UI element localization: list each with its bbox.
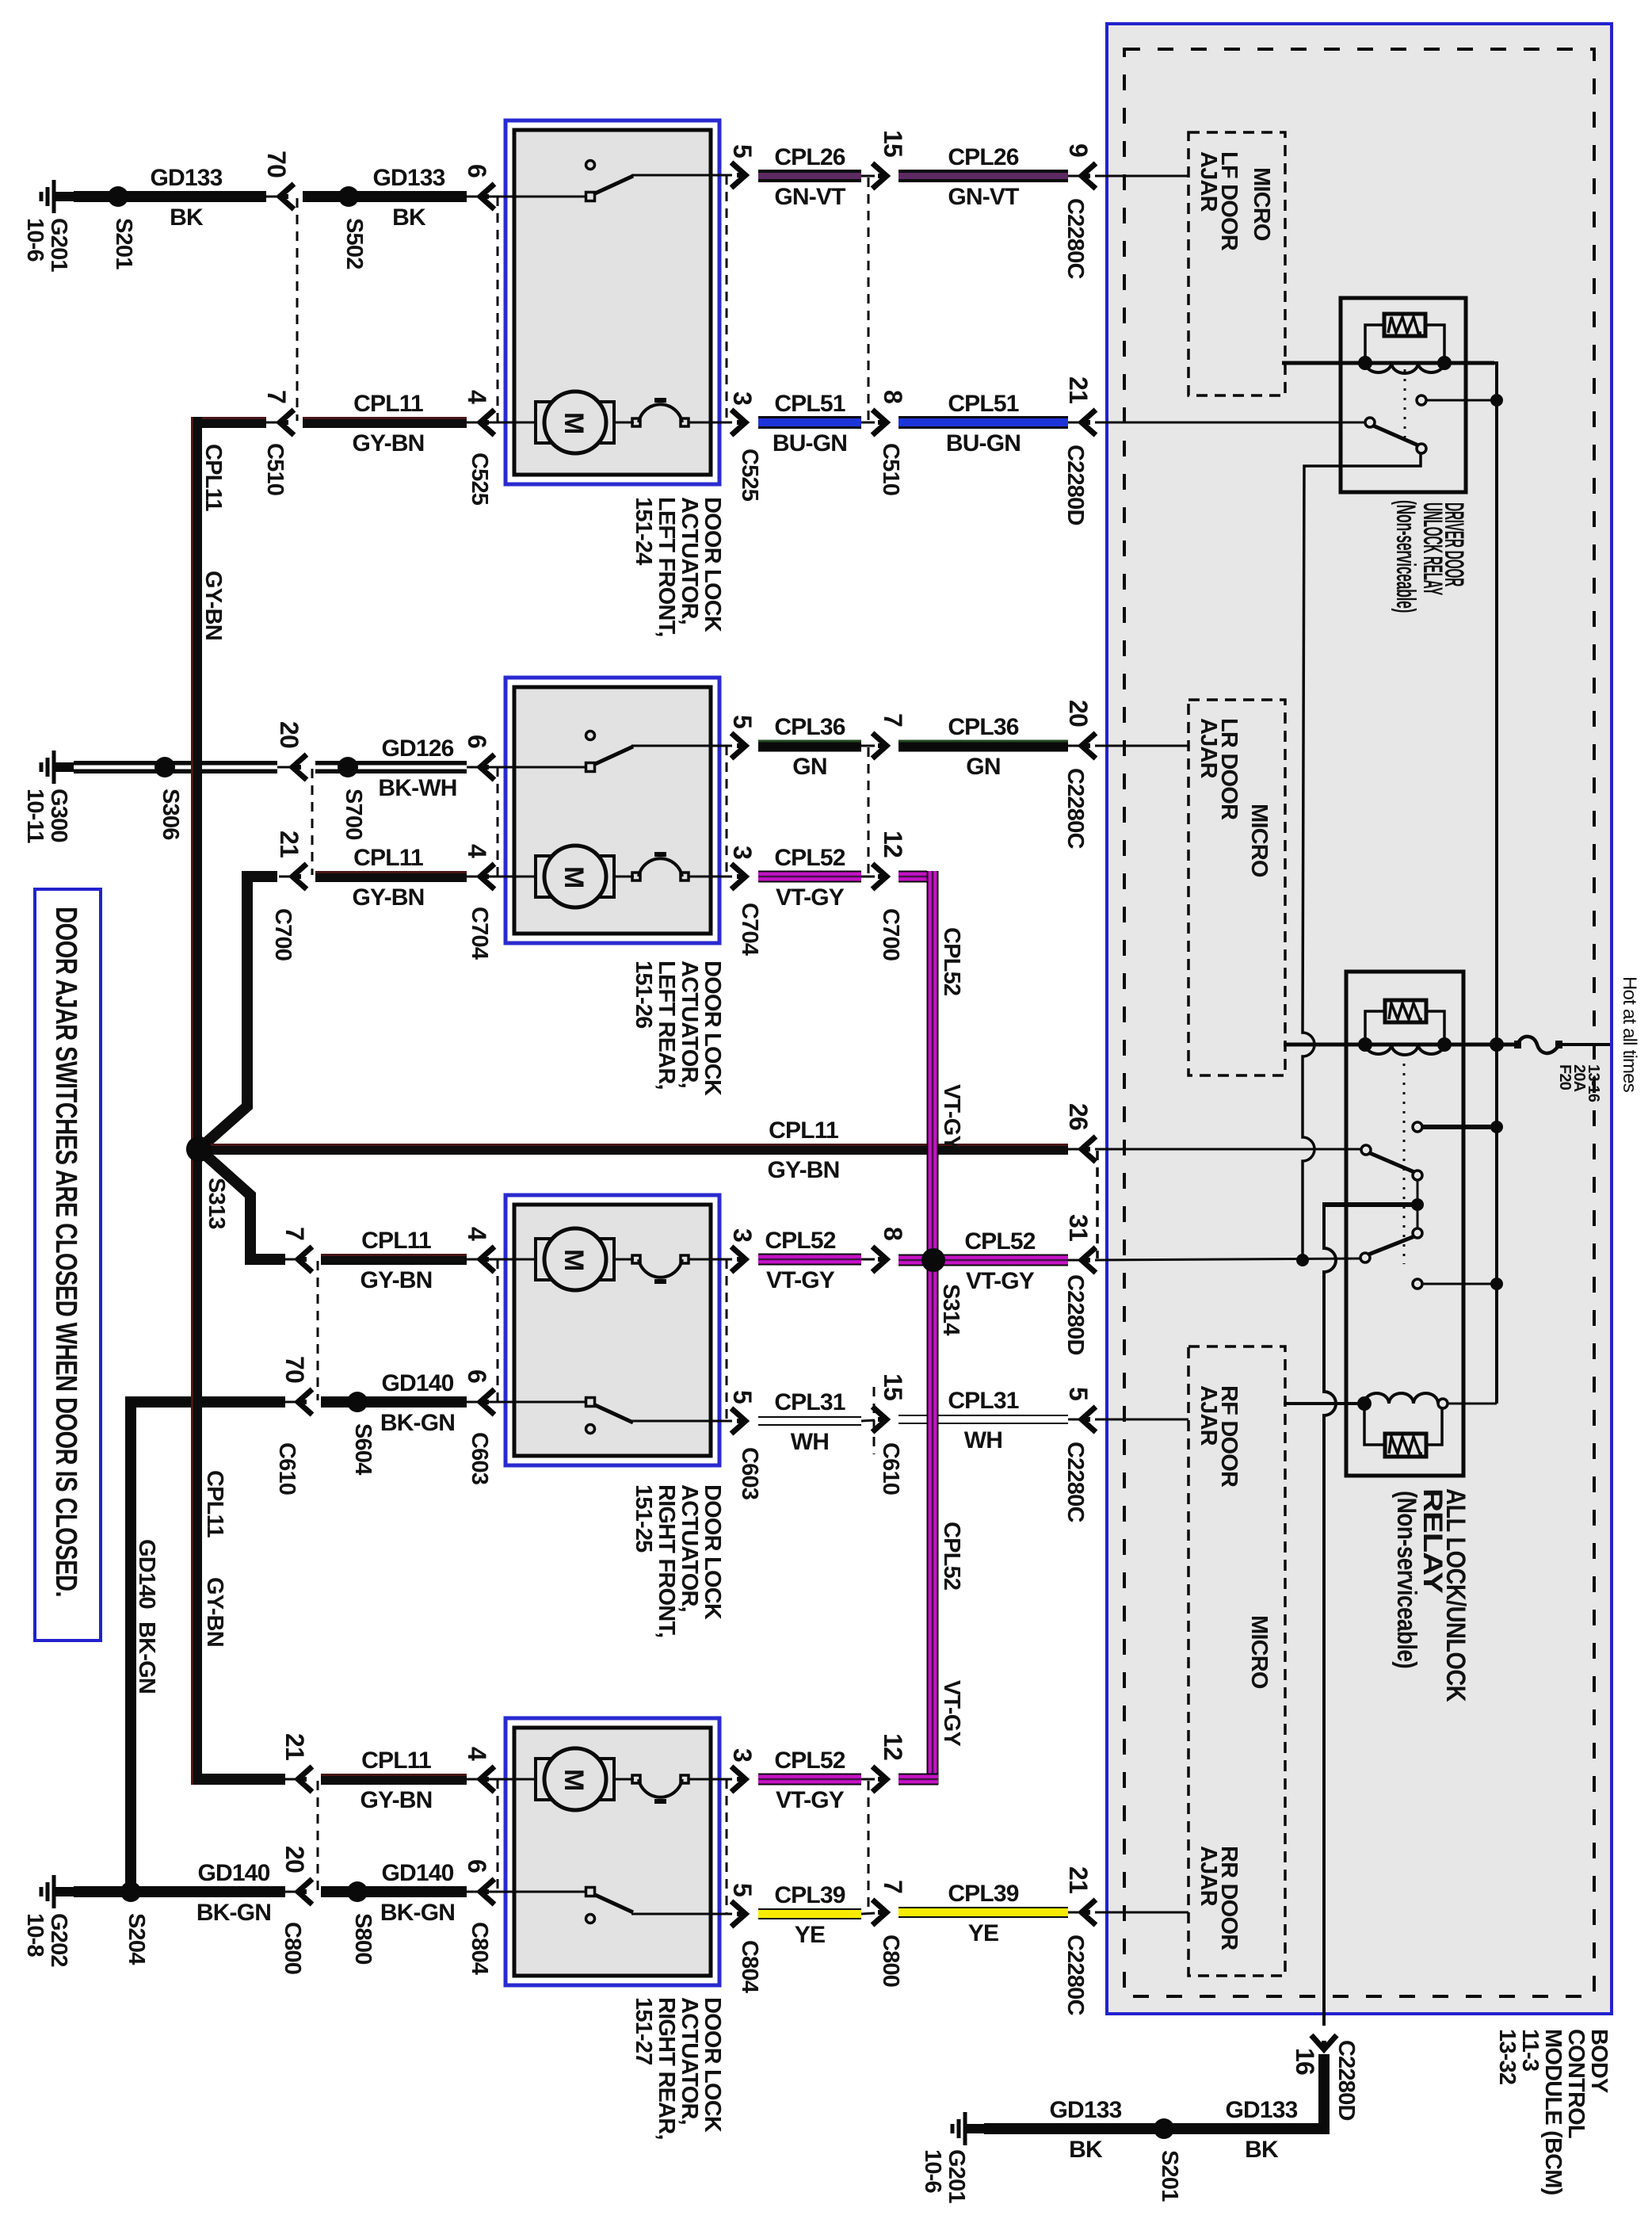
- wire pin5 to RF DOOR AJAR micro: [1095, 1419, 1188, 1421]
- relay U2 lower resistor leads: [1364, 1408, 1385, 1445]
- svg-text:5: 5: [728, 1883, 757, 1896]
- wire CPL52 corner to RR pin12: [898, 1774, 938, 1786]
- svg-text:5: 5: [728, 715, 757, 728]
- svg-text:AJAR: AJAR: [1196, 1846, 1221, 1907]
- ground G201 top: [52, 180, 56, 213]
- svg-text:WH: WH: [791, 1429, 829, 1455]
- relay U2 bottom contact wire to hot rail: [1422, 1283, 1496, 1285]
- wire CPL36 GN segment 1: [758, 740, 861, 752]
- svg-text:DOOR LOCK: DOOR LOCK: [700, 497, 725, 632]
- svg-text:AJAR: AJAR: [1196, 1385, 1221, 1446]
- connector C700 pin21 arrow: [279, 876, 293, 878]
- svg-text:GD133: GD133: [150, 165, 222, 191]
- actuator C525 lock linkage: [614, 422, 634, 424]
- svg-text:S313: S313: [204, 1178, 229, 1229]
- relay U2 lower coil junction dot: [1357, 1396, 1372, 1411]
- svg-text:C804: C804: [737, 1940, 762, 1993]
- svg-text:C510: C510: [878, 443, 903, 495]
- connector C610 dashed line: [317, 1261, 319, 1400]
- svg-text:BK-GN: BK-GN: [380, 1410, 455, 1436]
- connector C800 dashed line: [317, 1781, 319, 1890]
- BCM pin16 arrow down: [1311, 2035, 1337, 2049]
- svg-text:70: 70: [280, 1356, 309, 1383]
- svg-text:C800: C800: [280, 1922, 305, 1974]
- svg-text:11-3: 11-3: [1517, 2029, 1543, 2072]
- svg-text:MICRO: MICRO: [1249, 167, 1274, 241]
- wire CPL52 VT-GY spine to S314 row: [898, 1255, 1068, 1266]
- wire pin31 CPL52 to all-lock relay armature 2: [1095, 1259, 1360, 1260]
- wire CPL52 VT-GY segment 1: [758, 871, 861, 883]
- splice S204: [120, 1881, 141, 1902]
- actuator C804 connector dashed lines: [497, 1779, 499, 1892]
- wire CPL51 BU-GN segment 2: [898, 416, 1068, 429]
- actuator C804 lock motor M: [467, 1778, 536, 1781]
- splice S502: [338, 186, 359, 207]
- svg-text:(Non-serviceable): (Non-serviceable): [1391, 500, 1421, 613]
- svg-text:DOOR LOCK: DOOR LOCK: [700, 1484, 725, 1620]
- actuator RR pin3 arrow: [731, 1767, 746, 1792]
- wire CPL11 GY-BN to RF actuator: [321, 1254, 467, 1265]
- relay U2 centre pole bottom contact: [1413, 1228, 1422, 1238]
- wire CPL11 GY-BN to LR actuator: [315, 871, 467, 882]
- svg-text:UNLOCK RELAY: UNLOCK RELAY: [1417, 502, 1448, 596]
- svg-text:151-24: 151-24: [631, 497, 656, 565]
- actuator C804 lock linkage: [614, 1778, 634, 1781]
- svg-text:RIGHT REAR,: RIGHT REAR,: [654, 1997, 679, 2140]
- svg-text:C2280C: C2280C: [1063, 1935, 1088, 2015]
- svg-text:5: 5: [1064, 1387, 1093, 1400]
- BCM pin20 arrow: [1068, 745, 1082, 747]
- svg-text:GD133: GD133: [1225, 2097, 1297, 2123]
- svg-text:BK-GN: BK-GN: [196, 1900, 271, 1926]
- svg-text:C525: C525: [737, 449, 762, 502]
- BCM pin21C arrow: [1068, 1912, 1082, 1914]
- svg-text:S604: S604: [350, 1423, 376, 1475]
- svg-text:CPL51: CPL51: [774, 391, 845, 417]
- wire CPL31 WH segment 2: [898, 1415, 1068, 1424]
- svg-text:6: 6: [463, 1369, 491, 1383]
- splice S201 bottom: [1154, 2118, 1174, 2139]
- svg-text:Hot at all times: Hot at all times: [1619, 976, 1640, 1093]
- svg-text:CPL36: CPL36: [774, 714, 845, 740]
- svg-text:YE: YE: [795, 1922, 825, 1948]
- svg-text:GD140: GD140: [381, 1860, 453, 1886]
- relay U1 armature dotted link: [1404, 369, 1406, 437]
- actuator C525 ajar switch: [467, 196, 587, 198]
- ground-out vertical to pin16 with hops: [1324, 1202, 1336, 2026]
- svg-text:21: 21: [275, 831, 303, 857]
- svg-text:3: 3: [728, 392, 757, 405]
- svg-text:10-11: 10-11: [22, 789, 48, 843]
- svg-text:CPL26: CPL26: [948, 144, 1018, 170]
- svg-text:C2280D: C2280D: [1333, 2040, 1359, 2121]
- svg-text:5: 5: [728, 144, 757, 158]
- connector C510 pin7 arrow: [266, 422, 282, 424]
- actuator C603 ajar switch: [467, 1401, 587, 1404]
- BCM pin31 arrow: [1068, 1259, 1082, 1262]
- svg-text:M: M: [559, 1769, 589, 1791]
- connector C700 pin7 arrow: [861, 745, 875, 747]
- svg-text:C510: C510: [262, 443, 288, 495]
- relay U2 armature dotted link: [1403, 1054, 1406, 1264]
- connector C610 right dashed: [873, 1387, 876, 1454]
- svg-text:C610: C610: [878, 1442, 903, 1495]
- svg-text:G300: G300: [46, 789, 71, 842]
- relay U1 NO contact: [1417, 395, 1426, 405]
- svg-text:9: 9: [1064, 143, 1093, 157]
- svg-text:VT-GY: VT-GY: [776, 1787, 845, 1813]
- svg-text:VT-GY: VT-GY: [939, 1680, 964, 1746]
- door lock actuator box C704 outer: [506, 678, 719, 943]
- wire CPL39 YE segment 2: [898, 1907, 1068, 1918]
- svg-text:C804: C804: [467, 1922, 492, 1975]
- svg-text:BK: BK: [392, 204, 426, 231]
- relay U2 lower suppression resistor: [1385, 1434, 1426, 1457]
- door lock actuator box C704 inner: [514, 687, 711, 934]
- door lock actuator box C804 inner: [514, 1728, 711, 1976]
- svg-text:BK: BK: [1069, 2137, 1103, 2163]
- actuator LF pin5 arrow: [731, 162, 746, 188]
- wire CPL26 GN-VT segment 2: [898, 170, 1068, 182]
- BCM pin5 arrow: [1068, 1419, 1082, 1421]
- svg-text:AJAR: AJAR: [1196, 151, 1221, 212]
- svg-text:C704: C704: [467, 907, 492, 960]
- actuator LF pin6 arrow: [467, 196, 481, 198]
- svg-text:GN: GN: [966, 754, 1000, 780]
- svg-text:S502: S502: [341, 218, 367, 269]
- svg-text:CPL26: CPL26: [774, 144, 845, 170]
- wire CPL52 VT-GY to BCM pin31: [898, 1255, 1068, 1266]
- actuator RF pin4 arrow: [467, 1259, 481, 1261]
- splice S800: [347, 1881, 368, 1902]
- wire CPL36 GN segment 2: [898, 740, 1068, 752]
- connector C510 right dashed: [868, 178, 870, 421]
- svg-text:BK: BK: [170, 204, 204, 231]
- svg-text:C603: C603: [737, 1447, 762, 1500]
- svg-text:GD133: GD133: [1049, 2097, 1121, 2123]
- svg-text:LEFT FRONT,: LEFT FRONT,: [654, 497, 679, 636]
- relay U1 armature lever: [1373, 426, 1418, 445]
- svg-text:S700: S700: [341, 789, 366, 840]
- svg-text:GY-BN: GY-BN: [352, 884, 424, 911]
- svg-text:4: 4: [463, 844, 491, 858]
- wire pin9 to LF DOOR AJAR micro: [1095, 175, 1188, 178]
- svg-text:AJAR: AJAR: [1196, 718, 1221, 779]
- relay U1 moving contact: [1417, 444, 1426, 453]
- svg-text:12: 12: [879, 1733, 907, 1760]
- actuator LR pin3 arrow: [731, 864, 746, 889]
- svg-text:GY-BN: GY-BN: [202, 1577, 227, 1647]
- wire GD140 BK-GN bottom segment 2: [321, 1886, 467, 1897]
- relay U2 lower coil: [1364, 1393, 1438, 1404]
- junction ground-to-CPL52 node: [1296, 1254, 1309, 1266]
- relay U2 lower coil feed from RF/RR micro: [1284, 1402, 1360, 1405]
- wire GD133 BK segment 2: [303, 191, 467, 202]
- svg-text:3: 3: [728, 846, 757, 859]
- svg-text:VT-GY: VT-GY: [939, 1084, 964, 1150]
- svg-text:151-25: 151-25: [631, 1484, 656, 1553]
- door lock actuator box C603 inner: [514, 1205, 711, 1456]
- svg-text:8: 8: [879, 1227, 907, 1240]
- svg-text:20: 20: [1064, 700, 1093, 727]
- svg-text:BK-GN: BK-GN: [134, 1621, 159, 1694]
- svg-text:7: 7: [262, 390, 291, 403]
- ground net vertical from driver relay, hops, joins CPL52 node: [1303, 453, 1421, 1260]
- svg-text:GD126: GD126: [381, 735, 453, 762]
- svg-text:20: 20: [280, 1846, 309, 1873]
- svg-text:M: M: [559, 866, 589, 888]
- connector C510 dashed line: [296, 198, 299, 421]
- relay U2 armature1 lever: [1370, 1153, 1414, 1172]
- connector C610 pin15 arrow: [861, 1420, 875, 1421]
- svg-text:13-16: 13-16: [1585, 1064, 1602, 1102]
- actuator RR pin6 arrow: [467, 1891, 481, 1893]
- svg-text:GY-BN: GY-BN: [767, 1157, 839, 1183]
- actuator RF pin3 arrow: [731, 1247, 746, 1272]
- svg-text:VT-GY: VT-GY: [776, 884, 845, 911]
- door lock actuator box C603 outer: [506, 1195, 719, 1465]
- svg-text:M: M: [559, 1249, 589, 1271]
- svg-text:4: 4: [463, 1747, 491, 1761]
- svg-text:21: 21: [1064, 376, 1093, 403]
- BCM module box (Body Control Module): [1107, 24, 1612, 2014]
- wire CPL52 VT-GY RF segment: [758, 1254, 861, 1266]
- svg-text:GD140: GD140: [197, 1860, 269, 1886]
- wire GD140 BK-GN left leg corner: [125, 1402, 136, 1892]
- splice S313 redraw: [186, 1136, 212, 1162]
- svg-text:70: 70: [262, 151, 291, 178]
- connector C800 right dashed: [868, 1781, 870, 1912]
- wire GD140 BK-GN segment 2: [321, 1396, 467, 1408]
- wire GD133 BK segment 1: [74, 191, 266, 202]
- svg-text:CONTROL: CONTROL: [1563, 2029, 1589, 2138]
- svg-text:BU-GN: BU-GN: [946, 430, 1021, 456]
- connector C800 pin20 arrow: [284, 1891, 299, 1893]
- actuator LR pin5 arrow: [731, 733, 746, 758]
- driver door unlock relay U1 box: [1341, 298, 1466, 492]
- wire CPL51 BU-GN segment 1: [758, 416, 861, 429]
- wire CPL11 GY-BN trunk to BCM pin26: [199, 1144, 1068, 1155]
- connector C700 pin20 arrow: [277, 766, 293, 769]
- connector C610 pin7 arrow: [284, 1259, 299, 1261]
- svg-text:5: 5: [728, 1390, 757, 1404]
- svg-text:C700: C700: [270, 908, 296, 961]
- wire CPL52 VT-GY vertical spine: [898, 877, 933, 888]
- actuator LR pin4 arrow: [467, 876, 481, 878]
- connector C800 pin21 arrow: [284, 1778, 299, 1781]
- actuator C704 ajar switch: [467, 766, 587, 769]
- wire fuse to Hot at all times feed: [1559, 1043, 1610, 1046]
- svg-text:S204: S204: [124, 1913, 149, 1965]
- svg-text:C603: C603: [467, 1432, 492, 1485]
- actuator LF pin3 arrow: [731, 410, 746, 435]
- fuse F20: [1517, 1037, 1559, 1053]
- wire GD126 BK-WH segment 1: [74, 761, 277, 773]
- actuator RF pin6 arrow: [467, 1401, 481, 1404]
- svg-text:G202: G202: [46, 1913, 71, 1967]
- svg-text:CPL11: CPL11: [353, 845, 423, 871]
- relay U1 resistor leads: [1365, 325, 1384, 358]
- svg-text:CPL11: CPL11: [361, 1228, 431, 1254]
- wire CPL31 WH segment 1: [758, 1416, 861, 1426]
- svg-text:ACTUATOR,: ACTUATOR,: [677, 497, 702, 625]
- svg-text:ACTUATOR,: ACTUATOR,: [677, 961, 702, 1088]
- splice S604: [347, 1392, 368, 1412]
- svg-text:S201: S201: [1157, 2150, 1182, 2202]
- relay U2 lower coil output circle: [1438, 1399, 1448, 1408]
- relay U2 centre pole strip: [1417, 1180, 1419, 1229]
- svg-text:16: 16: [1291, 2048, 1319, 2075]
- svg-text:BK-GN: BK-GN: [380, 1900, 455, 1926]
- svg-text:BK: BK: [1245, 2137, 1279, 2163]
- svg-text:7: 7: [280, 1227, 309, 1240]
- connector C610 pin8 arrow: [861, 1259, 875, 1261]
- svg-text:ACTUATOR,: ACTUATOR,: [677, 1997, 702, 2125]
- svg-text:GD133: GD133: [372, 165, 444, 191]
- relay U1 coil junction dots: [1358, 356, 1372, 370]
- svg-text:C700: C700: [878, 908, 903, 961]
- actuator LR pin6 arrow: [467, 766, 481, 769]
- svg-text:151-27: 151-27: [631, 1997, 656, 2065]
- actuator C603 lock motor M: [467, 1259, 536, 1261]
- all lock/unlock relay U2 box: [1346, 972, 1463, 1476]
- svg-text:CPL52: CPL52: [765, 1228, 835, 1254]
- svg-text:CPL31: CPL31: [774, 1389, 845, 1415]
- door lock actuator box C525 outer: [506, 120, 719, 484]
- svg-text:C2280C: C2280C: [1063, 1442, 1088, 1522]
- svg-text:VT-GY: VT-GY: [966, 1268, 1035, 1294]
- relay U2 upper coil: [1365, 1045, 1444, 1055]
- wire CPL26 GN-VT segment 1: [758, 170, 861, 182]
- relay U2 armature1 common contact (CPL11): [1361, 1145, 1371, 1155]
- svg-text:BU-GN: BU-GN: [773, 430, 847, 456]
- wire GD140 BK-GN RF row: [125, 1396, 285, 1408]
- relay U2 armature2 lever: [1368, 1236, 1414, 1255]
- actuator RF pin5 arrow: [731, 1408, 746, 1434]
- relay U2 top contact bar to hot rail: [1422, 1125, 1496, 1129]
- door lock actuator box C804 outer: [506, 1718, 719, 1985]
- connector C510 pin70 arrow: [266, 196, 282, 198]
- svg-text:C2280D: C2280D: [1063, 445, 1088, 525]
- svg-text:6: 6: [463, 1859, 491, 1873]
- svg-text:4: 4: [463, 390, 491, 404]
- svg-text:CPL11: CPL11: [769, 1117, 838, 1144]
- svg-text:CPL52: CPL52: [774, 845, 845, 871]
- BCM pin9 arrow: [1068, 175, 1082, 178]
- relay U1 coil: [1365, 363, 1444, 373]
- actuator C704 connector dashed lines: [497, 767, 499, 877]
- wire GD133 BK from pin16: [984, 2054, 1330, 2129]
- wire pin26 CPL11 to all-lock relay armature: [1095, 1148, 1361, 1151]
- svg-text:MICRO: MICRO: [1246, 1615, 1272, 1689]
- splice S314: [921, 1248, 945, 1272]
- svg-text:3: 3: [728, 1228, 757, 1242]
- svg-text:GN: GN: [792, 754, 826, 780]
- svg-text:4: 4: [463, 1227, 491, 1241]
- relay U2 lower coil to hot rail: [1448, 1403, 1497, 1405]
- relay U2 armature2 common contact (CPL52): [1360, 1253, 1370, 1262]
- ground G201 bottom: [963, 2112, 967, 2145]
- splice S306: [155, 757, 175, 777]
- actuator C603 connector dashed lines: [497, 1259, 499, 1402]
- svg-text:21: 21: [1064, 1866, 1093, 1893]
- svg-text:CPL52: CPL52: [939, 927, 964, 995]
- svg-text:VT-GY: VT-GY: [766, 1267, 835, 1293]
- relay U1 armature common contact: [1365, 418, 1375, 427]
- ground G202: [52, 1875, 56, 1908]
- svg-text:CPL39: CPL39: [774, 1882, 845, 1908]
- svg-text:S800: S800: [350, 1913, 376, 1965]
- svg-text:31: 31: [1064, 1214, 1093, 1241]
- svg-text:C800: C800: [878, 1935, 903, 1987]
- wire CPL11 GY-BN corner to C510: [191, 417, 266, 428]
- svg-text:CPL52: CPL52: [774, 1747, 845, 1774]
- svg-text:20: 20: [275, 721, 303, 748]
- svg-text:GD140: GD140: [381, 1370, 453, 1396]
- svg-text:7: 7: [879, 1880, 907, 1893]
- connector C700 dashed line: [311, 769, 314, 875]
- splice S700: [338, 757, 358, 777]
- svg-text:C525: C525: [467, 453, 492, 506]
- svg-text:CPL11: CPL11: [200, 444, 226, 511]
- actuator RR pin4 arrow: [467, 1778, 481, 1781]
- relay U2 upper coil feed from LR micro to fuse rail: [1284, 1043, 1517, 1047]
- svg-text:MODULE (BCM): MODULE (BCM): [1540, 2029, 1566, 2195]
- svg-text:C610: C610: [274, 1442, 299, 1495]
- wire CPL11 corner to RR actuator: [196, 1774, 285, 1785]
- wire GD140 BK-GN bottom segment 1: [74, 1886, 285, 1897]
- svg-text:GN-VT: GN-VT: [774, 184, 845, 210]
- MICRO box LR DOOR AJAR: [1188, 700, 1285, 1075]
- relay U2 centre pole top contact: [1413, 1171, 1422, 1180]
- actuator C525 lock motor M: [467, 422, 536, 424]
- wire pin21 CPL51 to driver relay switch: [1095, 422, 1365, 424]
- svg-text:12: 12: [879, 831, 907, 857]
- wire GD126 BK-WH segment 2: [315, 761, 467, 773]
- wire CPL11 GY-BN to RR actuator: [321, 1774, 467, 1785]
- note box DOOR AJAR SWITCHES: [35, 889, 101, 1641]
- relay U1 suppression resistor: [1384, 314, 1425, 336]
- wire CPL52 VT-GY RR segment: [758, 1774, 861, 1786]
- svg-text:CPL31: CPL31: [948, 1388, 1018, 1414]
- connector C800 pin7 arrow: [861, 1913, 875, 1914]
- wire pin21C to RR DOOR AJAR micro: [1095, 1912, 1188, 1914]
- svg-text:3: 3: [728, 1748, 757, 1762]
- svg-text:RIGHT FRONT,: RIGHT FRONT,: [654, 1484, 679, 1637]
- relay U2 upper suppression resistor: [1385, 1000, 1426, 1022]
- actuator LF pin4 arrow: [467, 422, 481, 424]
- svg-text:CPL11: CPL11: [202, 1470, 227, 1537]
- svg-text:DOOR LOCK: DOOR LOCK: [700, 961, 725, 1096]
- connector C2280D dashed pins 26-31: [1096, 1151, 1099, 1259]
- svg-text:CPL51: CPL51: [948, 391, 1018, 417]
- svg-text:ACTUATOR,: ACTUATOR,: [677, 1484, 702, 1612]
- svg-text:C2280C: C2280C: [1063, 198, 1088, 279]
- svg-text:GY-BN: GY-BN: [352, 430, 424, 456]
- svg-text:CPL11: CPL11: [353, 391, 423, 417]
- connector C700 right dashed: [868, 747, 870, 875]
- svg-text:8: 8: [879, 390, 907, 403]
- wire CPL11 GY-BN main spine: [191, 417, 202, 1785]
- svg-text:BODY: BODY: [1586, 2029, 1612, 2093]
- door lock actuator box C525 inner: [514, 130, 711, 475]
- svg-text:BK-WH: BK-WH: [378, 775, 456, 801]
- svg-text:MICRO: MICRO: [1246, 804, 1272, 877]
- svg-text:G201: G201: [944, 2149, 969, 2203]
- svg-text:CPL52: CPL52: [964, 1228, 1035, 1255]
- svg-text:151-26: 151-26: [631, 961, 656, 1029]
- svg-text:GY-BN: GY-BN: [360, 1267, 432, 1293]
